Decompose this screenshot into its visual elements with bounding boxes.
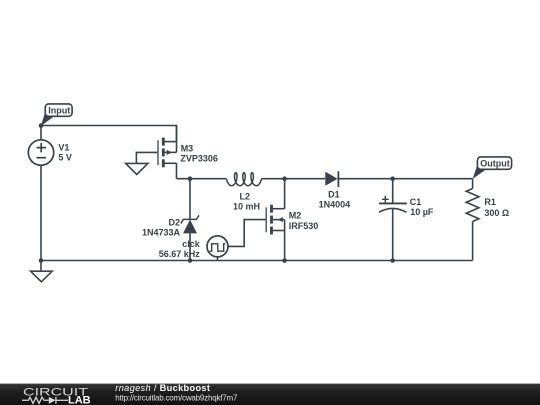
footer bar [0,384,540,405]
source CLK1 clock 56.67 kHz [207,236,228,261]
svg-text:10 mH: 10 mH [233,202,260,212]
svg-text:Input: Input [48,106,70,116]
node M2 source junction dot [282,258,287,263]
resistor R1 300 ohm [466,179,479,261]
svg-text:56.67 kHz: 56.67 kHz [159,249,201,259]
wire bottom ground rail [41,260,473,262]
svg-text:LAB: LAB [68,395,91,405]
svg-text:1N4004: 1N4004 [319,199,351,209]
capacitor C1 polarized [379,179,407,261]
wire D2 anode to ground rail [189,233,191,260]
wire top rail from input node to M3 source column [41,126,177,142]
svg-text:D2: D2 [168,217,180,227]
label C1 value 10 uF [410,197,434,217]
svg-text:rnagesh / Buckboost: rnagesh / Buckboost [115,383,210,393]
transistor M2 NMOS IRF530 [266,179,284,261]
transistor M3 PMOS [158,126,177,179]
node C1 bottom junction dot [390,258,395,263]
wire M3 gate lead [136,152,157,163]
voltage source V1 [28,126,53,166]
svg-text:L2: L2 [240,192,251,202]
node bottom-left junction dot [39,258,44,263]
label D1 1N4004 [319,190,351,210]
flag label Output [473,157,512,179]
logo CircuitLab [22,387,91,405]
ground GND2 at M3 gate [126,163,148,174]
wire mid rail M3 drain to L2 [177,178,227,180]
svg-text:5 V: 5 V [58,152,72,162]
inductor L2 [227,173,262,186]
footer text credit [115,383,238,402]
svg-text:300 Ω: 300 Ω [484,208,509,218]
diode D1 1N4004 [325,171,338,187]
label M3 ZVP3306 [180,143,218,163]
wire D2 branch top [189,179,191,220]
label L2 value 10 mH [233,192,260,212]
svg-text:Output: Output [480,159,510,169]
svg-text:C1: C1 [410,197,422,207]
wire D1 cathode to output node [338,178,472,180]
label V1 value 5 V [58,143,72,163]
svg-text:V1: V1 [58,143,69,153]
svg-text:IRF530: IRF530 [289,221,319,231]
svg-text:http://circuitlab.com/cwab9zhq: http://circuitlab.com/cwab9zhqkf7m7 [115,394,238,403]
wire L2 to M2 drain node [261,178,284,180]
ground GND1 bottom-left [31,261,52,282]
svg-text:R1: R1 [484,197,496,207]
label clck value 56.67 kHz [159,239,201,259]
node M2 drain junction dot [282,176,287,181]
wire clock output to M2 gate [228,220,265,247]
node Input junction dot [39,123,44,128]
svg-text:M2: M2 [289,211,302,221]
wire M2 drain node to D1 [285,178,326,180]
svg-text:10 µF: 10 µF [410,207,434,217]
node C1 top junction dot [390,176,395,181]
node D2 bottom junction dot [188,258,193,263]
svg-text:M3: M3 [181,143,194,153]
svg-text:1N4733A: 1N4733A [142,228,181,238]
svg-text:D1: D1 [328,190,340,200]
label D2 1N4733A [142,217,181,237]
label M2 IRF530 [289,211,319,232]
label R1 value 300 ohm [484,197,509,218]
wire V1 minus to ground rail [40,166,42,261]
svg-text:clck: clck [182,239,201,249]
node D2 top junction dot [188,176,193,181]
svg-text:ZVP3306: ZVP3306 [180,153,218,163]
flag label Input [41,104,72,126]
diode D2 zener 1N4733A [181,215,199,233]
